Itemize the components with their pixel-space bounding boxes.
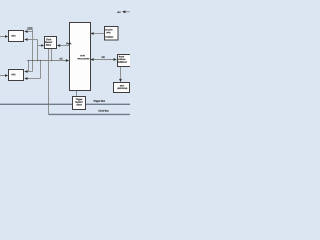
node +5V supply — [117, 10, 130, 13]
ADC U1 — [9, 31, 24, 42]
wire data vertical B lower — [40, 61, 42, 79]
wire data vertical B upper — [37, 40, 39, 61]
board address multiplexer block — [118, 55, 132, 67]
node Clock net label — [27, 27, 33, 29]
wire analog input to ADC2 — [0, 74, 8, 77]
wire trigger bus — [0, 103, 130, 105]
wire oscillator to microcontroller — [90, 32, 104, 35]
wire board address block to MAC eeprom — [119, 67, 122, 83]
oscillator X1 — [105, 27, 119, 41]
node Clock Bus label — [98, 110, 108, 112]
clock master slave block — [45, 37, 57, 49]
wire analog input to ADC1 — [0, 35, 8, 38]
wire microcontroller to clock block with Clock label — [57, 44, 70, 47]
node I2S net label — [60, 58, 63, 59]
MAC EEPROM U4 — [114, 83, 130, 93]
wire stub into clock block left pin — [38, 44, 45, 47]
wire branch to ADC2 bottom pin — [24, 77, 40, 80]
wire clock bus — [49, 113, 131, 115]
wire clock block to clock bus — [48, 49, 50, 115]
wire clock vertical A — [32, 30, 34, 72]
wire branch to ADC1 bottom pin — [24, 38, 37, 41]
node Clock label at microcontroller clock output — [66, 43, 71, 45]
junction dots on data bus — [28, 60, 53, 62]
trigger master slave block — [73, 97, 86, 110]
junction dot at trigger bus crossing — [48, 103, 50, 105]
ADC U2 — [9, 70, 24, 81]
wire I2S data bus to microcontroller — [27, 59, 69, 62]
wire clock block to data bus — [51, 49, 53, 61]
wire clock branch to ADC1 top pin — [24, 30, 32, 33]
wire clock branch to ADC2 top pin — [24, 70, 32, 73]
node Trigger Bus label — [93, 100, 105, 102]
wire microcontroller to trigger block — [76, 90, 78, 97]
wire SPI double arrow — [90, 58, 117, 61]
node SPI label — [102, 56, 105, 57]
wire parallel data drop — [28, 61, 30, 72]
microcontroller U3 — [70, 23, 91, 91]
